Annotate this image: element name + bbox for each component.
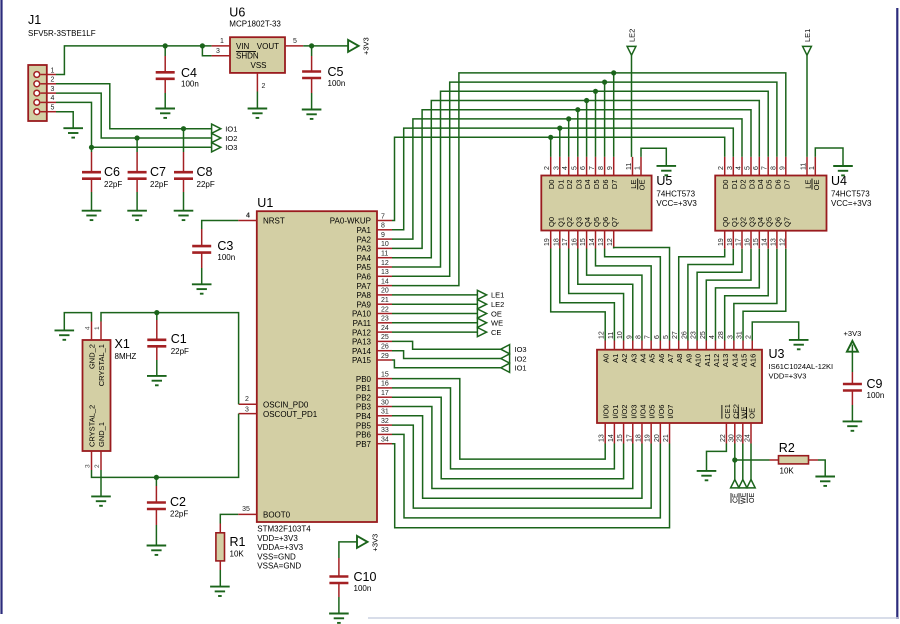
- U4 pin D2 stub: [741, 157, 743, 176]
- terminal CE arrow: [477, 328, 486, 337]
- svg-text:D7: D7: [610, 180, 619, 190]
- ground U4 OE: [833, 165, 853, 167]
- U3 pin IO2 stub: [623, 423, 625, 444]
- svg-text:1: 1: [220, 38, 224, 45]
- svg-text:22pF: 22pF: [104, 180, 122, 189]
- svg-text:33: 33: [381, 427, 389, 434]
- svg-text:A6: A6: [657, 354, 666, 363]
- wire U5 OE to ground: [641, 148, 666, 166]
- latch U4 74HCT573: [715, 176, 826, 231]
- U3 pin IO1 stub: [613, 423, 615, 444]
- svg-text:74HCT573: 74HCT573: [656, 190, 695, 199]
- U5 pin D3 stub: [577, 157, 579, 176]
- svg-text:3: 3: [84, 464, 91, 468]
- svg-text:U5: U5: [656, 174, 672, 188]
- svg-text:C3: C3: [217, 239, 233, 253]
- U5 pin Q2 stub: [568, 231, 570, 249]
- svg-text:PB6: PB6: [356, 431, 372, 440]
- svg-text:LE2: LE2: [628, 29, 637, 42]
- ground X1 top: [55, 329, 75, 331]
- svg-text:1: 1: [809, 166, 816, 170]
- svg-text:Q2: Q2: [739, 217, 748, 227]
- ground J1 pin5: [63, 127, 83, 129]
- wire PA11 to WE terminal: [392, 322, 477, 324]
- svg-text:17: 17: [736, 238, 743, 246]
- U3 pin A9 stub: [687, 341, 689, 350]
- svg-text:A3: A3: [629, 354, 638, 363]
- U1 pin 12 PA5: [377, 266, 392, 268]
- node junction C8 tap: [181, 126, 186, 131]
- U5 pin Q5 stub: [595, 231, 597, 249]
- wire SHDN branch: [202, 46, 211, 56]
- svg-text:IS61C1024AL-12KI: IS61C1024AL-12KI: [769, 362, 834, 371]
- ground C7: [127, 210, 147, 212]
- svg-text:5: 5: [745, 166, 752, 170]
- wire U5 Q0 to A0: [551, 249, 606, 341]
- U3 OE terminal overline: [746, 493, 748, 503]
- ground C4: [155, 108, 175, 110]
- svg-text:13: 13: [599, 434, 606, 442]
- svg-text:D2: D2: [565, 180, 574, 190]
- svg-text:D5: D5: [765, 180, 774, 190]
- svg-text:PA15: PA15: [352, 356, 372, 365]
- U5 pin D1 stub: [559, 157, 561, 176]
- ground C5: [302, 109, 322, 111]
- svg-text:19: 19: [544, 238, 551, 246]
- wire WE to WE terminal: [742, 444, 744, 480]
- U1 pin 7 PA0-WKUP: [377, 220, 392, 222]
- svg-text:Q5: Q5: [592, 217, 601, 227]
- U3 pin WE stub: [742, 423, 744, 444]
- svg-text:15: 15: [753, 238, 760, 246]
- terminal LE2 arrow: [477, 300, 486, 309]
- terminal CE arrow: [731, 480, 739, 488]
- svg-text:22pF: 22pF: [150, 180, 168, 189]
- U3 pin CE2 stub: [734, 423, 736, 444]
- X1 pin 2 GND_1 stub: [100, 451, 102, 470]
- svg-text:OE: OE: [638, 180, 647, 191]
- svg-text:A12: A12: [712, 354, 721, 367]
- capacitor C1 22pF: [156, 313, 158, 320]
- svg-text:74HCT573: 74HCT573: [831, 190, 870, 199]
- svg-text:D5: D5: [592, 180, 601, 190]
- svg-text:CE: CE: [491, 328, 501, 337]
- svg-text:VOUT: VOUT: [257, 42, 279, 51]
- node junction U5 D5: [593, 89, 598, 94]
- svg-text:VCC=+3V3: VCC=+3V3: [831, 199, 872, 208]
- svg-text:11: 11: [626, 163, 633, 170]
- wire PA12 to CE terminal: [392, 331, 477, 333]
- resistor R2 10K: [770, 459, 779, 461]
- svg-text:D0: D0: [547, 180, 556, 190]
- svg-text:PB5: PB5: [356, 421, 372, 430]
- svg-text:VSS: VSS: [251, 61, 267, 70]
- svg-text:C10: C10: [354, 570, 377, 584]
- svg-text:2: 2: [245, 396, 249, 403]
- U6 pin 2 VSS stub: [256, 73, 258, 92]
- svg-text:12: 12: [779, 238, 786, 246]
- svg-text:19: 19: [718, 238, 725, 246]
- wire PA14 to IO2 terminal: [392, 351, 501, 359]
- U5 pin D6 stub: [604, 157, 606, 176]
- U4 pin Q7 stub: [785, 231, 787, 249]
- svg-text:9: 9: [607, 166, 614, 170]
- svg-text:A5: A5: [648, 354, 657, 363]
- svg-text:17: 17: [562, 238, 569, 246]
- U4 pin Q2 stub: [741, 231, 743, 249]
- svg-text:VSSA=GND: VSSA=GND: [257, 562, 301, 571]
- svg-text:2: 2: [94, 464, 101, 468]
- terminal IO1 arrow: [212, 124, 221, 133]
- svg-text:PB2: PB2: [356, 393, 372, 402]
- capacitor C9 100n: [851, 345, 853, 373]
- svg-text:PA3: PA3: [356, 245, 371, 254]
- U1 pin 14 PA7: [377, 285, 392, 287]
- U1 pin 29 PA15: [377, 359, 392, 361]
- power +3V3 arrow (C10): [357, 536, 368, 548]
- svg-text:I/O5: I/O5: [648, 405, 657, 419]
- svg-text:WE: WE: [741, 492, 748, 504]
- svg-text:IO1: IO1: [515, 364, 527, 373]
- svg-text:22pF: 22pF: [171, 347, 189, 356]
- U1 pin 15 PB0: [377, 378, 392, 380]
- node junction U5 D4: [584, 98, 589, 103]
- connector J1: [28, 65, 47, 121]
- U4 pin D3 stub: [750, 157, 752, 176]
- wire PA3 data bus D3: [392, 110, 751, 249]
- svg-text:VCC=+3V3: VCC=+3V3: [656, 199, 697, 208]
- svg-text:A4: A4: [638, 354, 647, 363]
- U5 pin Q1 stub: [559, 231, 561, 249]
- svg-text:A10: A10: [694, 354, 703, 367]
- svg-text:4: 4: [562, 166, 569, 170]
- node junction U5 D2: [566, 116, 571, 121]
- svg-text:LE2: LE2: [491, 300, 504, 309]
- svg-text:11: 11: [801, 163, 808, 170]
- ground U5 OE: [657, 165, 677, 167]
- wire U5 D7 tap: [613, 73, 615, 157]
- node junction C4 tap: [163, 43, 168, 48]
- wire J1 pin3 to IO2: [56, 93, 212, 138]
- U4 pin D0 stub: [724, 157, 726, 176]
- wire U4 Q1 to A9: [688, 249, 733, 341]
- ground C10: [329, 613, 349, 615]
- wire X1 GND_1 to ground: [100, 470, 102, 496]
- node junction CE2/R2: [732, 457, 737, 462]
- X1 pin 1 CRYSTAL_1 stub: [100, 322, 102, 341]
- svg-text:CRYSTAL_2: CRYSTAL_2: [88, 405, 97, 447]
- svg-text:OE: OE: [749, 493, 756, 503]
- U4 pin Q6 stub: [776, 231, 778, 249]
- U5 pin 1 OE stub: [640, 157, 642, 176]
- U1 pin 21 PA9: [377, 303, 392, 305]
- U3 pin OE stub: [750, 423, 752, 444]
- ground CE1: [697, 470, 717, 472]
- node junction C1 tap: [154, 310, 159, 315]
- svg-text:A9: A9: [684, 354, 693, 363]
- svg-text:16: 16: [381, 381, 389, 388]
- U3 pin IO6 stub: [659, 423, 661, 444]
- svg-text:10: 10: [381, 241, 389, 248]
- svg-text:STM32F103T4: STM32F103T4: [257, 525, 311, 534]
- U3 pin A12 stub: [714, 341, 716, 350]
- svg-text:Q4: Q4: [583, 217, 592, 227]
- border frame right: [896, 8, 898, 619]
- svg-text:IO2: IO2: [225, 134, 237, 143]
- wire U5 Q2 to A2: [569, 249, 624, 341]
- wire U5 Q5 to A5: [596, 249, 652, 341]
- wire U5 Q4 to A4: [587, 249, 642, 341]
- svg-text:PA4: PA4: [356, 254, 371, 263]
- svg-text:PB3: PB3: [356, 403, 372, 412]
- svg-text:8MHZ: 8MHZ: [115, 352, 137, 361]
- wire CE1 to ground: [707, 444, 727, 471]
- U4 pin D5 stub: [767, 157, 769, 176]
- wire VOUT to +3V3 arrow: [303, 45, 348, 47]
- ground U6 VSS: [248, 108, 268, 110]
- terminal WE arrow: [477, 318, 486, 327]
- svg-text:D1: D1: [556, 180, 565, 190]
- U3 pin A10 stub: [696, 341, 698, 350]
- svg-text:C5: C5: [328, 65, 344, 79]
- svg-text:3: 3: [727, 166, 734, 170]
- svg-text:A14: A14: [730, 354, 739, 367]
- svg-text:8: 8: [381, 223, 385, 230]
- svg-text:PA13: PA13: [352, 338, 372, 347]
- wire PA6 data bus D6: [392, 82, 777, 276]
- wire PA13 to IO3 terminal: [392, 341, 501, 349]
- svg-text:LE1: LE1: [491, 291, 504, 300]
- terminal LE1 at top: [806, 55, 808, 157]
- svg-text:100n: 100n: [217, 253, 235, 262]
- svg-text:CE: CE: [733, 493, 740, 503]
- svg-text:15: 15: [381, 371, 389, 378]
- capacitor C4 100n: [164, 46, 166, 56]
- capacitor C2 22pF: [155, 477, 157, 486]
- svg-text:22pF: 22pF: [170, 510, 188, 519]
- U5 pin Q6 stub: [604, 231, 606, 249]
- svg-text:D6: D6: [773, 180, 782, 190]
- ground R2: [815, 476, 835, 478]
- svg-text:C7: C7: [150, 165, 166, 179]
- svg-text:D2: D2: [739, 180, 748, 190]
- U1 pin 16 PB1: [377, 387, 392, 389]
- svg-text:PA2: PA2: [356, 235, 371, 244]
- wire PA10 to OE terminal: [392, 313, 477, 315]
- terminal OE arrow: [477, 309, 486, 318]
- svg-text:A1: A1: [611, 354, 620, 363]
- U1 pin 10 PA3: [377, 247, 392, 249]
- svg-text:13: 13: [770, 238, 777, 246]
- svg-text:15: 15: [580, 238, 587, 246]
- latch U5 74HCT573: [541, 176, 651, 231]
- terminal WE arrow: [739, 480, 747, 488]
- svg-text:A11: A11: [703, 354, 712, 367]
- svg-text:17: 17: [626, 434, 633, 442]
- svg-text:I/O4: I/O4: [638, 405, 647, 419]
- svg-text:I/O3: I/O3: [629, 405, 638, 419]
- svg-text:Q0: Q0: [547, 217, 556, 227]
- wire PB1 to I/O1: [392, 388, 614, 469]
- terminal IO2 arrow: [212, 133, 221, 142]
- svg-text:29: 29: [736, 434, 743, 442]
- wire PB2 to I/O2: [392, 397, 624, 479]
- U1 pin 2 OSCIN_PD0: [239, 403, 257, 405]
- svg-text:35: 35: [242, 506, 250, 513]
- wire U4 Q7 to A15: [743, 249, 786, 341]
- svg-text:J1: J1: [28, 13, 41, 27]
- svg-text:31: 31: [381, 409, 389, 416]
- svg-text:A16: A16: [749, 354, 758, 367]
- U4 pin 11 LE stub: [806, 157, 808, 176]
- svg-text:PB7: PB7: [356, 440, 372, 449]
- svg-text:A7: A7: [666, 354, 675, 363]
- svg-text:5: 5: [51, 105, 55, 112]
- U3 pin A6 stub: [659, 341, 661, 350]
- wire CRYSTAL_2 to OSCOUT: [92, 414, 239, 478]
- svg-text:X1: X1: [115, 337, 130, 351]
- svg-text:7: 7: [762, 166, 769, 170]
- border frame left: [0, 0, 2, 614]
- U1 pin 22 PA10: [377, 313, 392, 315]
- U1 pin 30 PB3: [377, 406, 392, 408]
- wire U4 Q0 to A8: [679, 249, 725, 341]
- svg-text:R1: R1: [230, 535, 246, 549]
- svg-text:PA10: PA10: [352, 310, 372, 319]
- U1 pin 11 PA4: [377, 257, 392, 259]
- U1 pin 25 PA13: [377, 340, 392, 342]
- svg-text:OSCIN_PD0: OSCIN_PD0: [263, 401, 309, 410]
- wire U5 Q1 to A1: [560, 249, 615, 341]
- svg-text:1: 1: [635, 166, 642, 170]
- svg-text:PA14: PA14: [352, 347, 372, 356]
- svg-text:PA9: PA9: [356, 300, 371, 309]
- svg-text:CRYSTAL_1: CRYSTAL_1: [97, 344, 106, 386]
- capacitor C8 22pF: [183, 129, 185, 152]
- U3 pin IO0 stub: [604, 423, 606, 444]
- svg-text:I/O0: I/O0: [602, 405, 611, 419]
- U5 pin Q3 stub: [577, 231, 579, 249]
- svg-text:4: 4: [736, 166, 743, 170]
- svg-text:24: 24: [381, 325, 389, 332]
- svg-text:3: 3: [216, 48, 220, 55]
- wire U5 D5 tap: [595, 91, 597, 157]
- capacitor C3 100n: [201, 229, 203, 246]
- wire J1 pin4 to IO3: [56, 102, 212, 147]
- wire R1 to ground: [219, 570, 221, 587]
- svg-text:2: 2: [544, 166, 551, 170]
- svg-text:6: 6: [753, 166, 760, 170]
- wire PB6 to I/O6: [392, 434, 660, 518]
- U3 pin IO4 stub: [641, 423, 643, 444]
- U4 pin D1 stub: [732, 157, 734, 176]
- svg-text:D4: D4: [756, 180, 765, 190]
- wire U5 Q6 to A6: [605, 249, 661, 341]
- node junction U5 D7: [611, 70, 616, 75]
- svg-text:IO3: IO3: [225, 143, 237, 152]
- U3 pin A14 stub: [733, 341, 735, 350]
- border frame bottom: [368, 617, 898, 619]
- terminal LE2 at top: [631, 55, 633, 157]
- svg-text:VDDA=+3V3: VDDA=+3V3: [257, 543, 303, 552]
- svg-text:Q3: Q3: [574, 217, 583, 227]
- svg-text:D6: D6: [601, 180, 610, 190]
- U1 pin 23 PA11: [377, 322, 392, 324]
- memory U3 IS61C1024AL-12KI: [597, 350, 762, 423]
- svg-text:12: 12: [607, 238, 614, 246]
- U5 pin D0 stub: [550, 157, 552, 176]
- U4 pin Q5 stub: [767, 231, 769, 249]
- wire U5 Q7 to A7: [614, 248, 670, 341]
- svg-text:IO3: IO3: [515, 345, 527, 354]
- svg-text:BOOT0: BOOT0: [263, 511, 291, 520]
- svg-text:20: 20: [381, 288, 389, 295]
- wire J1 pin5 to ground: [56, 112, 73, 129]
- svg-text:Q6: Q6: [601, 217, 610, 227]
- capacitor C10 100n: [338, 558, 340, 577]
- terminal IO2 arrow: [501, 354, 510, 363]
- U5 pin D4 stub: [586, 157, 588, 176]
- svg-text:8: 8: [770, 166, 777, 170]
- ground R1: [210, 586, 230, 588]
- svg-text:9: 9: [779, 166, 786, 170]
- wire PA9 to LE2 terminal: [392, 303, 477, 305]
- U3 pin A5 stub: [650, 341, 652, 350]
- svg-text:OE: OE: [812, 180, 821, 191]
- wire PB7 to I/O7: [392, 444, 670, 528]
- wire U5 D4 tap: [586, 101, 588, 157]
- U3 WE terminal overline: [738, 493, 740, 504]
- U1 pin 3 OSCOUT_PD1: [239, 413, 257, 415]
- X1 pin 3 CRYSTAL_2 stub: [91, 451, 93, 470]
- wire PA15 to IO1 terminal: [392, 360, 501, 368]
- U5 pin Q7 stub: [613, 231, 615, 249]
- svg-text:3: 3: [245, 406, 249, 413]
- wire NRST to C3: [202, 221, 239, 230]
- node junction C6 tap: [89, 145, 94, 150]
- svg-text:20: 20: [654, 434, 661, 442]
- svg-text:D1: D1: [730, 180, 739, 190]
- wire PB4 to I/O4: [392, 416, 642, 499]
- svg-text:4: 4: [246, 213, 250, 220]
- wire U4 Q2 to A10: [697, 249, 742, 341]
- svg-text:PA12: PA12: [352, 328, 372, 337]
- wire U5 D3 tap: [577, 110, 579, 157]
- U4 pin 1 OE stub: [814, 157, 816, 176]
- connector J1 pin 4: [41, 101, 57, 103]
- svg-text:C1: C1: [171, 332, 187, 346]
- wire OE to OE terminal: [750, 444, 752, 480]
- svg-text:U1: U1: [257, 196, 273, 210]
- wire U4 OE to ground: [815, 148, 843, 166]
- ground A16: [789, 339, 809, 341]
- svg-text:23: 23: [381, 316, 389, 323]
- U3 pin A11 stub: [705, 341, 707, 350]
- svg-text:PB1: PB1: [356, 384, 372, 393]
- svg-text:24: 24: [745, 434, 752, 442]
- svg-text:Q4: Q4: [756, 217, 765, 227]
- svg-text:13: 13: [381, 269, 389, 276]
- terminal IO1 arrow: [501, 363, 510, 372]
- U1 pin 26 PA14: [377, 350, 392, 352]
- U3 pin A13 stub: [724, 341, 726, 350]
- svg-text:9: 9: [381, 232, 385, 239]
- wire U5 D0 tap: [550, 137, 552, 157]
- svg-text:14: 14: [381, 278, 389, 285]
- U4 pin D7 stub: [785, 157, 787, 176]
- U5 pin 11 LE stub: [632, 157, 634, 176]
- U3 pin A15 stub: [742, 341, 744, 350]
